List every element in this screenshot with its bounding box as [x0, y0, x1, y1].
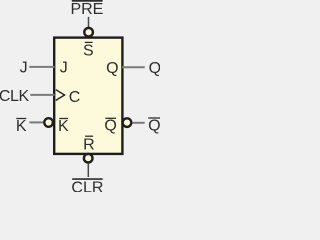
bubble K-bar input	[44, 118, 53, 127]
svg-text:J: J	[60, 60, 68, 77]
clock edge triangle	[56, 90, 65, 101]
wire CLK input	[30, 94, 54, 96]
svg-text:J: J	[20, 60, 28, 77]
svg-text:Q: Q	[106, 60, 118, 77]
bubble PRE (top)	[84, 28, 93, 37]
svg-text:PRE: PRE	[70, 1, 103, 18]
svg-text:CLK: CLK	[0, 88, 29, 105]
wire Q output	[122, 66, 145, 68]
wire PRE stub	[88, 17, 90, 28]
svg-text:K: K	[16, 118, 27, 135]
svg-text:S: S	[83, 43, 94, 60]
svg-text:Q: Q	[104, 118, 116, 135]
bubble Q-bar output	[123, 118, 132, 127]
bubble CLR (bottom)	[84, 154, 93, 163]
svg-text:K: K	[58, 118, 69, 135]
svg-text:R: R	[83, 137, 95, 154]
svg-text:CLR: CLR	[71, 180, 103, 192]
svg-text:Q: Q	[148, 118, 160, 135]
wire K-bar input	[29, 121, 44, 123]
wire CLR stub	[87, 163, 89, 177]
wire Q-bar output	[132, 122, 145, 124]
svg-text:C: C	[69, 89, 81, 106]
wire J input	[29, 66, 54, 68]
svg-text:Q: Q	[149, 60, 160, 77]
flip-flop U1 body	[54, 38, 122, 154]
